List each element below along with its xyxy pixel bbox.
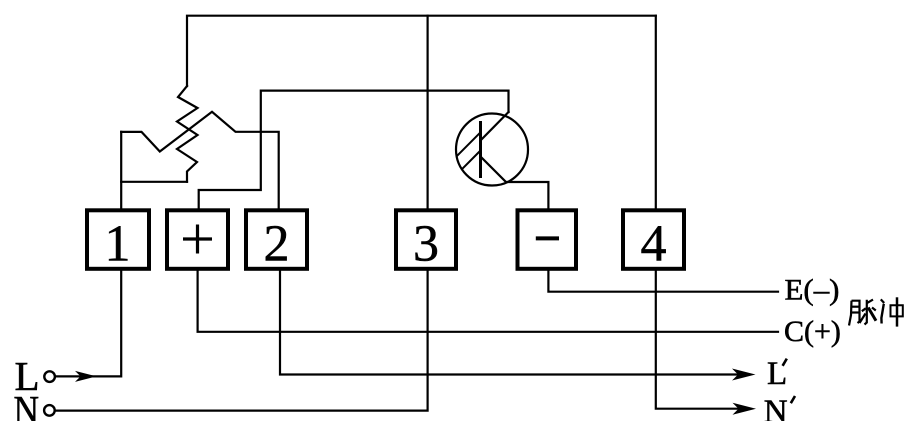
svg-text:2: 2 <box>264 216 290 273</box>
terminal box 1 <box>87 210 149 272</box>
arrow on L input wire <box>75 371 97 382</box>
svg-text:E(–): E(–) <box>785 273 840 306</box>
wire: terminal 1 bottom down to L input <box>56 271 121 376</box>
wire: terminal 3 top drop from top rail <box>427 16 429 209</box>
svg-text:C(+): C(+) <box>784 315 841 348</box>
transistor Q1 collector diagonal <box>481 112 509 141</box>
wire: tap (wiper) from terminal1 vertical across resistor to terminal 2 <box>121 112 279 209</box>
wire: terminal minus bottom down and right = E(-) pulse line <box>548 271 778 292</box>
svg-text:N: N <box>764 394 788 421</box>
transistor Q1 base bar <box>479 121 482 178</box>
transistor Q1 body circle <box>456 114 528 186</box>
svg-text:3: 3 <box>413 216 439 273</box>
prime of L' <box>783 359 787 366</box>
wire: terminal + top, up and over to transistor collector rail <box>199 91 509 209</box>
svg-text:1: 1 <box>105 216 131 273</box>
prime of N' <box>791 396 795 403</box>
wire: terminal 4 bottom down and right to N' output <box>656 271 741 409</box>
wire: resistor bottom to terminal 1 vertical <box>121 181 187 183</box>
node L input terminal circle <box>44 371 55 382</box>
wire: terminal 4 top drop from top rail <box>655 16 657 209</box>
terminal box 3 <box>396 210 456 272</box>
terminal box 4 <box>623 210 684 272</box>
arrow L' output <box>732 369 756 381</box>
transistor Q1 (phototransistor in circle) <box>456 114 528 186</box>
arrow N' output <box>733 403 757 415</box>
wire: terminal 1 top vertical (joins tap wire and resistor bottom) <box>120 132 122 209</box>
resistor R (zigzag) <box>177 86 198 182</box>
label pulse (mai) 脉 drawn <box>849 300 876 326</box>
terminal box minus <box>518 210 577 268</box>
wire: terminal 3 bottom down to N input line <box>56 271 428 411</box>
svg-text:4: 4 <box>641 216 667 273</box>
svg-text:N: N <box>14 387 40 421</box>
transistor Q1 emitter diagonal and wire to terminal minus top <box>481 157 549 209</box>
wire: terminal 2 bottom down and right to L' output <box>280 271 740 375</box>
label pulse (chong) 冲 drawn <box>881 297 903 326</box>
terminal box 2 <box>246 210 307 272</box>
terminal box + <box>167 210 228 268</box>
transistor Q1 light line 1 <box>457 132 481 156</box>
wire: top rail from resistor top to terminal 4 drop <box>187 16 656 86</box>
transistor Q1 light line 2 <box>462 151 481 170</box>
node N input terminal circle <box>44 405 55 416</box>
wire: terminal + bottom down and right = C(+) pulse line <box>198 271 778 332</box>
